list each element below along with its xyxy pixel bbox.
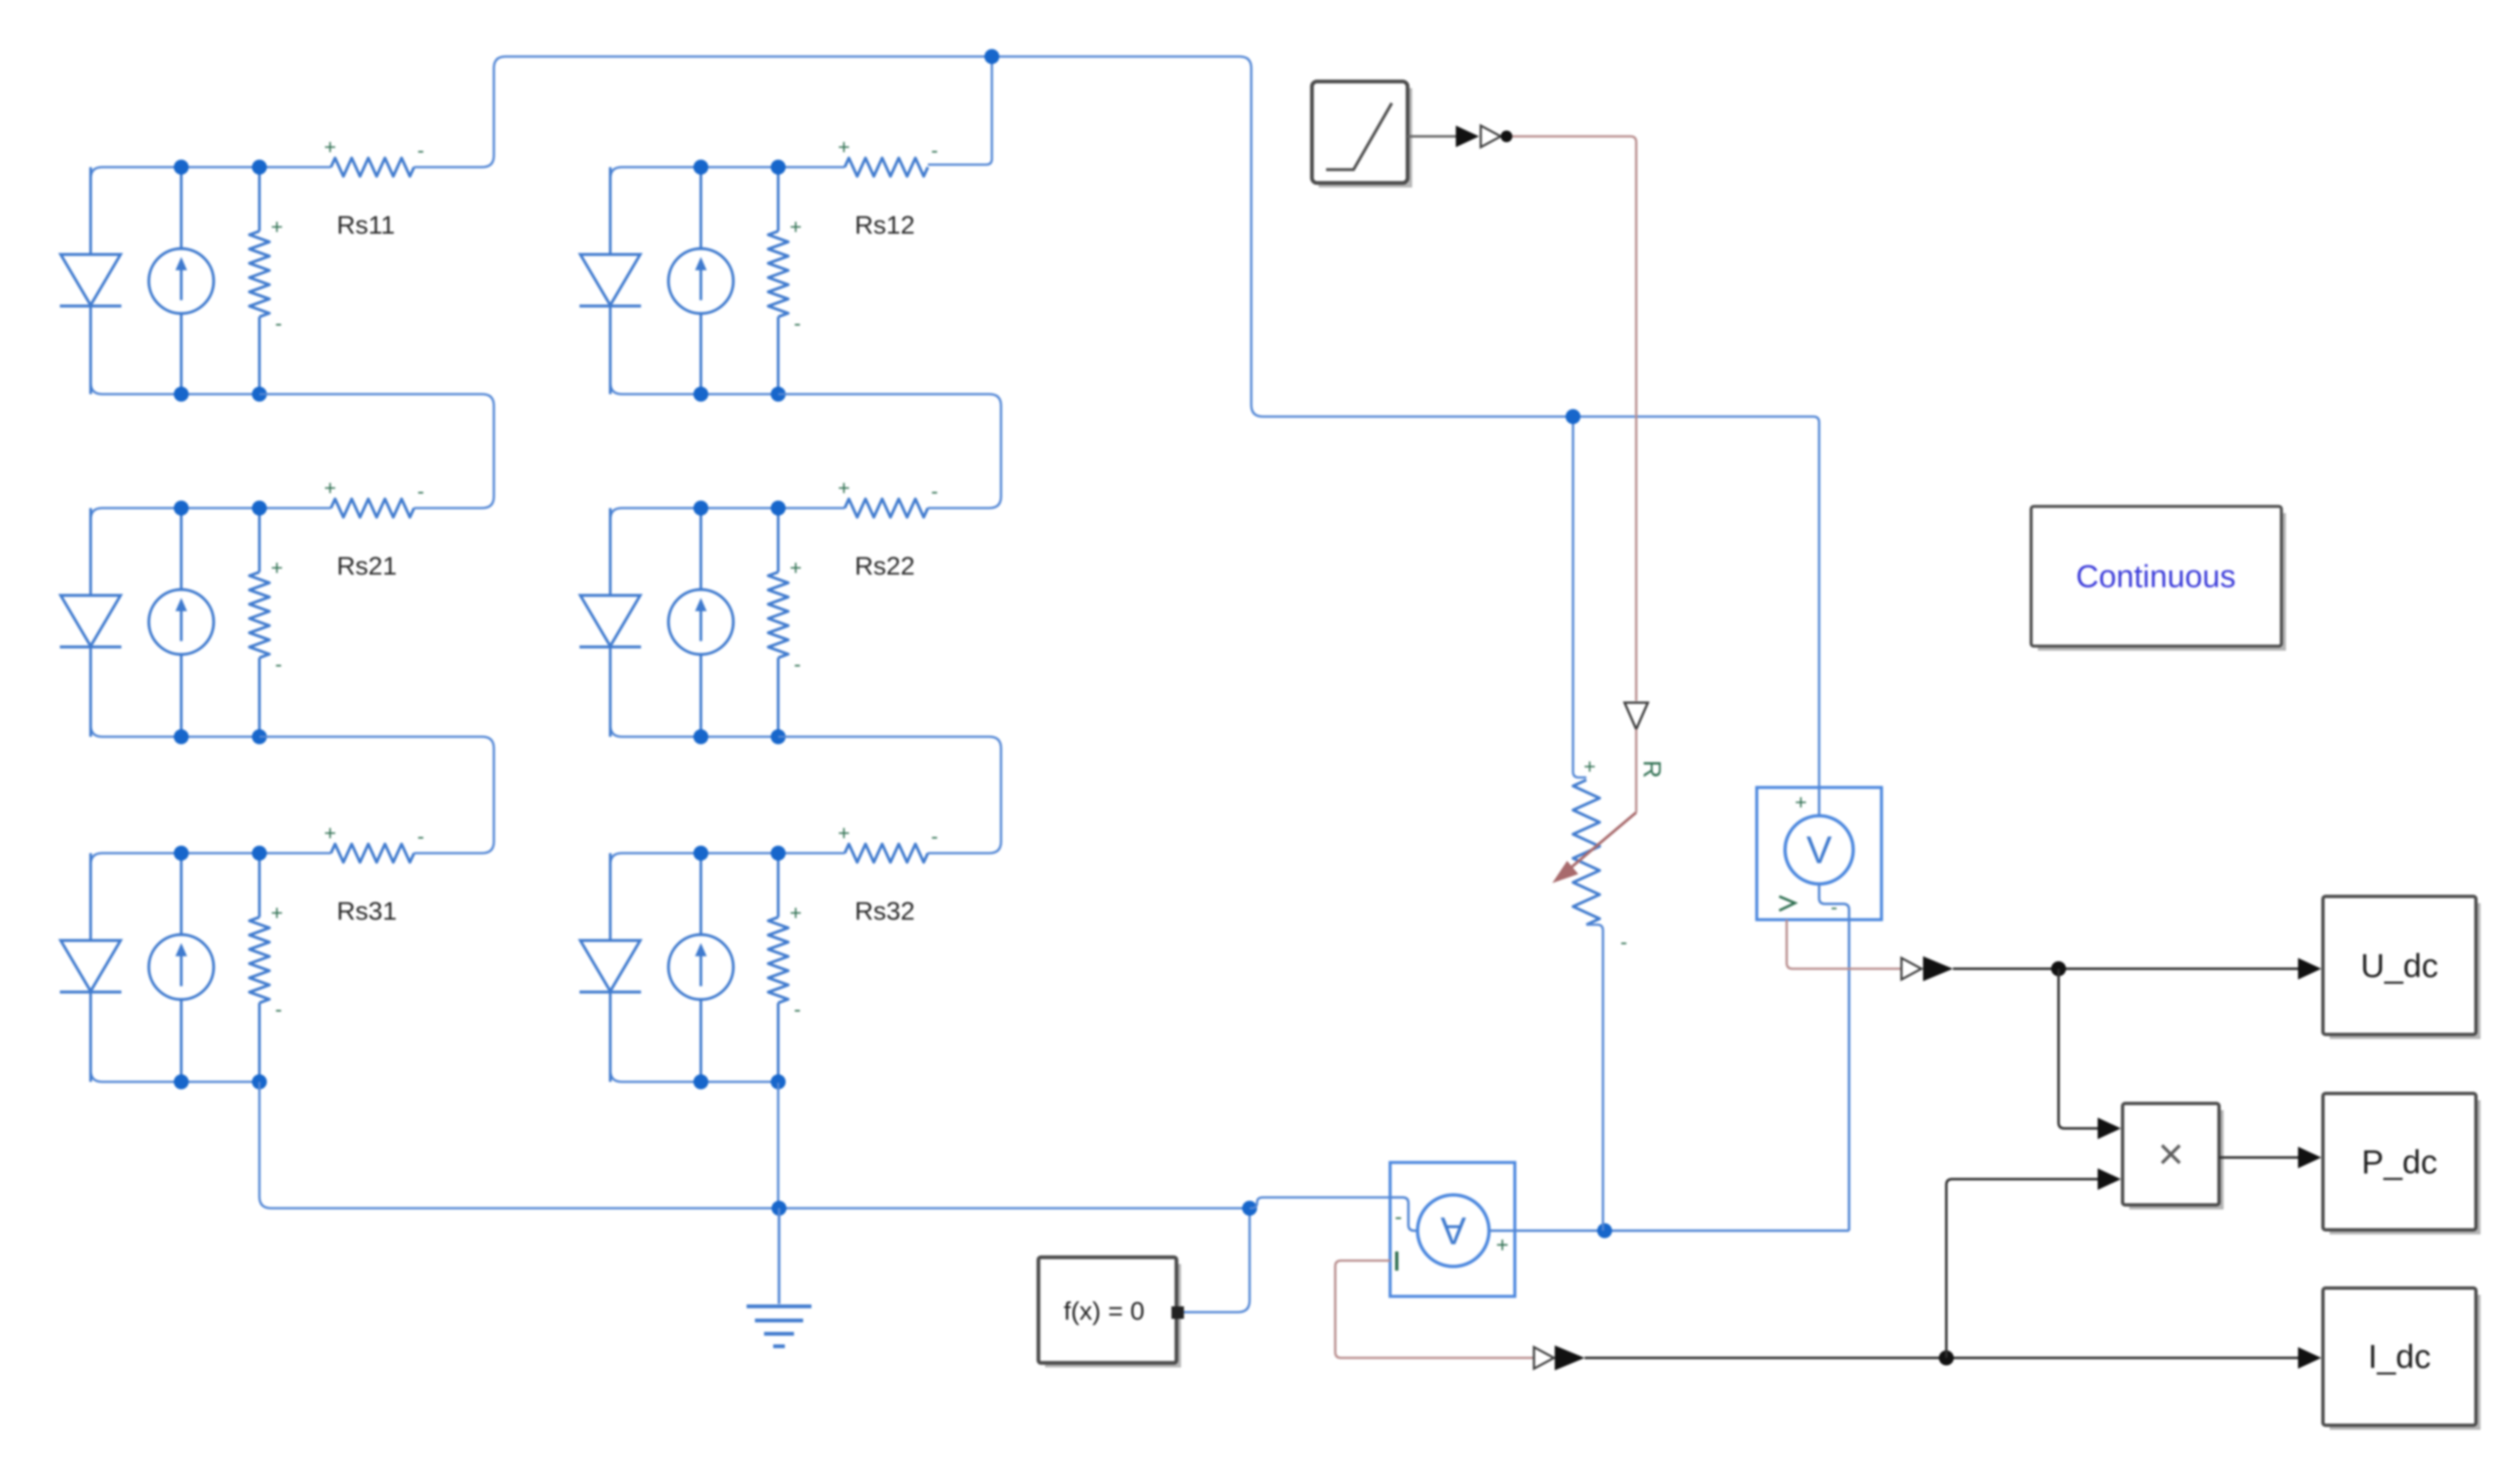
node bottom of I12 [693, 387, 708, 402]
arrowhead current converter [1555, 1345, 1585, 1370]
label - of Rs22 [931, 480, 938, 503]
port of f(x)=0 block [1171, 1306, 1184, 1319]
node ground junction [772, 1201, 787, 1216]
voltmeter dial [1785, 816, 1853, 884]
variable resistor arrow [1552, 812, 1636, 883]
label f(x)=0 [1063, 1296, 1144, 1325]
svg-text:-: - [794, 998, 801, 1021]
label - of Rsh12 [794, 312, 801, 335]
resistor Rs31 (series) [331, 844, 414, 862]
svg-text:+: + [838, 136, 851, 159]
label - of Rs11 [417, 139, 424, 162]
wire bottom bus of cell 21 [91, 725, 259, 737]
node bottom of I32 [693, 1074, 708, 1089]
ground symbol [747, 1306, 811, 1346]
node ammeter branch [1242, 1201, 1257, 1216]
wire current signal to product [1946, 1179, 2098, 1358]
label > of voltmeter [1779, 896, 1795, 911]
label + of Rs21 [324, 476, 337, 500]
node bottom of Rsh21 [252, 729, 267, 744]
current source I12 [668, 167, 733, 394]
label - of Rsh11 [275, 312, 282, 335]
resistor Rs32 (series) [845, 844, 928, 862]
label x of product [2158, 1129, 2184, 1179]
label P_dc [2361, 1144, 2437, 1181]
node top of Rsh31 [252, 846, 267, 861]
value label Rs21 [337, 551, 397, 580]
label + of Rs32 [838, 822, 851, 845]
current source I21 [149, 508, 214, 737]
label - of Rsh21 [275, 653, 282, 676]
svg-text:+: + [838, 822, 851, 845]
diode D32 [579, 853, 641, 1082]
wire top bus of cell 12 [610, 167, 845, 179]
svg-text:-: - [417, 825, 424, 848]
svg-text:-: - [417, 480, 424, 503]
variable resistor R body [1573, 780, 1600, 925]
voltage sensor block U2 [1757, 787, 1881, 920]
node voltage signal [2051, 961, 2066, 976]
label + of Rsh22 [790, 556, 802, 580]
svg-text:+: + [1584, 755, 1596, 778]
value label Rs32 [855, 896, 915, 926]
arrowhead saturation output [1456, 126, 1479, 147]
label + of Rs12 [838, 136, 851, 159]
current source I11 [149, 167, 214, 394]
wire series link left column row2-row3 [259, 737, 494, 853]
arrowhead product input 2 [2098, 1168, 2121, 1190]
port triangle of variable resistor [1625, 703, 1648, 729]
svg-text:-: - [275, 653, 282, 676]
svg-text:f(x) = 0: f(x) = 0 [1063, 1296, 1144, 1325]
wire voltage signal to product [2059, 969, 2098, 1128]
diode D21 [60, 508, 121, 737]
label + of Rsh31 [271, 901, 284, 925]
wire bottom bus of cell 31 [91, 1070, 259, 1082]
wire series link right column row2-row3 [778, 737, 1001, 853]
node top of Rsh22 [771, 501, 786, 516]
wire right column bottom drop [777, 1083, 780, 1208]
wire ammeter internal input [1390, 1197, 1418, 1231]
wire variable resistor to ammeter node [1586, 925, 1603, 1231]
wire saturation output [1408, 136, 1457, 138]
wire ground bus to ammeter [1250, 1197, 1390, 1208]
node top of I12 [693, 160, 708, 175]
wire top rail from Rs11 to voltage sensor [414, 57, 1819, 787]
node load branch [1566, 409, 1581, 424]
wire voltage signal to U_dc [1953, 968, 2298, 970]
node ammeter output [1597, 1223, 1612, 1238]
node bottom of I22 [693, 729, 708, 744]
svg-text:Rs12: Rs12 [855, 210, 915, 239]
label U_dc [2360, 948, 2438, 985]
label + of Rsh21 [271, 556, 284, 580]
wire series link left column row1-row2 [259, 394, 494, 508]
resistor Rsh12 (shunt) [768, 167, 788, 394]
value label Rs12 [855, 210, 915, 239]
node top of Rsh12 [771, 160, 786, 175]
label + of Rsh12 [790, 215, 802, 239]
node bottom of Rsh12 [771, 387, 786, 402]
svg-text:Rs22: Rs22 [855, 551, 915, 580]
wire physical signal to R port [1512, 136, 1636, 701]
wire series link right column row1-row2 [778, 394, 1001, 508]
resistor Rs21 (series) [331, 499, 414, 517]
svg-text:-: - [1620, 930, 1627, 954]
wire top bus of cell 22 [610, 508, 845, 520]
svg-text:Rs31: Rs31 [337, 896, 397, 926]
svg-text:A: A [1440, 1209, 1466, 1252]
svg-text:+: + [324, 136, 337, 159]
solver configuration block f(x)=0 [1038, 1257, 1179, 1365]
label - of Rs31 [417, 825, 424, 848]
resistor Rs22 (series) [845, 499, 928, 517]
label - of Rs21 [417, 480, 424, 503]
diode D12 [579, 167, 641, 394]
scope block P_dc [2323, 1093, 2478, 1232]
svg-text:Continuous: Continuous [2076, 560, 2236, 595]
wire voltmeter return [1819, 884, 1849, 1231]
value label Rs22 [855, 551, 915, 580]
diode D11 [60, 167, 121, 394]
powergui block Continuous [2031, 506, 2284, 649]
svg-text:+: + [1795, 791, 1807, 814]
svg-text:+: + [271, 556, 284, 580]
svg-text:+: + [790, 215, 802, 239]
svg-text:U_dc: U_dc [2360, 948, 2438, 985]
scope block I_dc [2323, 1288, 2478, 1428]
node current signal [1939, 1350, 1954, 1365]
label - of ammeter [1395, 1204, 1403, 1229]
svg-text:-: - [1395, 1204, 1403, 1229]
node bottom of Rsh22 [771, 729, 786, 744]
simulink-PS converter triangle [1481, 126, 1501, 147]
label - of Rsh32 [794, 998, 801, 1021]
label Continuous [2076, 560, 2236, 595]
wire top bus of cell 31 [91, 853, 331, 865]
node top of Rsh21 [252, 501, 267, 516]
scope block U_dc [2323, 896, 2478, 1037]
wire voltmeter internal input [1818, 787, 1821, 816]
node top of I22 [693, 501, 708, 516]
product block [2123, 1103, 2222, 1207]
saturation block [1312, 81, 1410, 185]
ammeter dial [1418, 1195, 1489, 1266]
svg-text:-: - [417, 139, 424, 162]
label + of variable resistor [1584, 755, 1596, 778]
resistor Rsh31 (shunt) [249, 853, 269, 1082]
wire bottom bus of cell 12 [610, 383, 778, 394]
resistor Rsh22 (shunt) [768, 508, 788, 737]
resistor Rsh21 (shunt) [249, 508, 269, 737]
svg-text:Rs21: Rs21 [337, 551, 397, 580]
svg-text:×: × [2158, 1129, 2184, 1179]
current sensor block U3 [1390, 1162, 1515, 1296]
label I_dc [2368, 1339, 2431, 1375]
svg-text:+: + [790, 901, 802, 925]
node top rail junction [984, 49, 999, 64]
svg-text:-: - [1831, 896, 1837, 919]
label - of Rs32 [931, 825, 938, 848]
svg-text:+: + [790, 556, 802, 580]
label - of voltmeter [1831, 896, 1837, 919]
wire Rs12 to top rail [928, 57, 992, 165]
svg-text:-: - [794, 653, 801, 676]
value label Rs31 [337, 896, 397, 926]
arrowhead voltage converter [1923, 956, 1953, 981]
node top of I21 [174, 501, 189, 516]
wire current signal to I_dc [1585, 1357, 2298, 1360]
current source I32 [668, 853, 733, 1082]
arrowhead into U_dc [2298, 958, 2321, 980]
label - of Rsh22 [794, 653, 801, 676]
svg-text:V: V [1807, 828, 1832, 871]
resistor Rsh11 (shunt) [249, 167, 269, 394]
svg-text:-: - [275, 998, 282, 1021]
current source I31 [149, 853, 214, 1082]
svg-text:+: + [324, 476, 337, 500]
node top of Rsh11 [252, 160, 267, 175]
node top of Rsh32 [771, 846, 786, 861]
node bottom of I11 [174, 387, 189, 402]
wire bottom bus of cell 32 [610, 1070, 778, 1082]
value label Rs11 [337, 210, 395, 239]
node bottom of Rsh31 [252, 1074, 267, 1089]
wire top bus of cell 32 [610, 853, 845, 865]
wire ammeter PS output [1335, 1261, 1534, 1358]
node top of I32 [693, 846, 708, 861]
wire bottom bus of cell 11 [91, 383, 259, 394]
svg-text:+: + [1496, 1232, 1508, 1257]
wire f(x)=0 to ground bus [1184, 1208, 1250, 1312]
node converter output [1501, 131, 1512, 142]
saturation ramp icon [1326, 103, 1392, 170]
current source I22 [668, 508, 733, 737]
arrowhead into P_dc [2298, 1147, 2321, 1168]
node bottom of Rsh32 [771, 1074, 786, 1089]
svg-text:P_dc: P_dc [2361, 1144, 2437, 1181]
svg-text:-: - [275, 312, 282, 335]
wire product output to P_dc [2219, 1157, 2298, 1159]
svg-text:-: - [931, 139, 938, 162]
node bottom of I31 [174, 1074, 189, 1089]
svg-text:-: - [931, 825, 938, 848]
label - of Rs12 [931, 139, 938, 162]
svg-text:+: + [271, 901, 284, 925]
label - of variable resistor [1620, 930, 1627, 954]
resistor Rs11 (series) [331, 158, 414, 176]
resistor Rsh32 (shunt) [768, 853, 788, 1082]
label R of variable resistor [1638, 760, 1665, 778]
label I of ammeter [1395, 1251, 1398, 1271]
diode D22 [579, 508, 641, 737]
label + of voltmeter [1795, 791, 1807, 814]
label + of ammeter [1496, 1232, 1508, 1257]
svg-text:Rs32: Rs32 [855, 896, 915, 926]
wire ground bus (array bottom to ammeter) [259, 1082, 1250, 1208]
arrowhead into I_dc [2298, 1347, 2321, 1369]
wire ammeter output to voltmeter return [1489, 1230, 1849, 1232]
node bottom of Rsh11 [252, 387, 267, 402]
svg-text:Rs11: Rs11 [337, 210, 395, 239]
svg-text:I_dc: I_dc [2368, 1339, 2431, 1375]
label + of Rsh32 [790, 901, 802, 925]
node bottom of I21 [174, 729, 189, 744]
resistor Rs12 (series) [845, 158, 928, 176]
wire ground stem [777, 1208, 780, 1304]
wire top bus of cell 21 [91, 508, 331, 520]
svg-text:+: + [271, 215, 284, 239]
label + of Rs22 [838, 476, 851, 500]
label + of Rs11 [324, 136, 337, 159]
node top of I31 [174, 846, 189, 861]
svg-text:R: R [1638, 760, 1665, 778]
label + of Rsh11 [271, 215, 284, 239]
wire R port to wiper [1635, 729, 1638, 812]
arrowhead product input 1 [2098, 1118, 2121, 1139]
svg-text:-: - [931, 480, 938, 503]
wire bottom bus of cell 22 [610, 725, 778, 737]
svg-text:-: - [794, 312, 801, 335]
label - of Rsh31 [275, 998, 282, 1021]
diode D31 [60, 853, 121, 1082]
svg-text:+: + [838, 476, 851, 500]
svg-text:+: + [324, 822, 337, 845]
label + of Rs31 [324, 822, 337, 845]
wire top bus of cell 11 [91, 167, 331, 179]
PS-simulink converter triangle (voltage) [1901, 958, 1921, 980]
PS-simulink converter triangle (current) [1534, 1347, 1554, 1369]
wire voltmeter PS output [1787, 920, 1901, 969]
wire load branch from node [1573, 417, 1586, 777]
node top of I11 [174, 160, 189, 175]
